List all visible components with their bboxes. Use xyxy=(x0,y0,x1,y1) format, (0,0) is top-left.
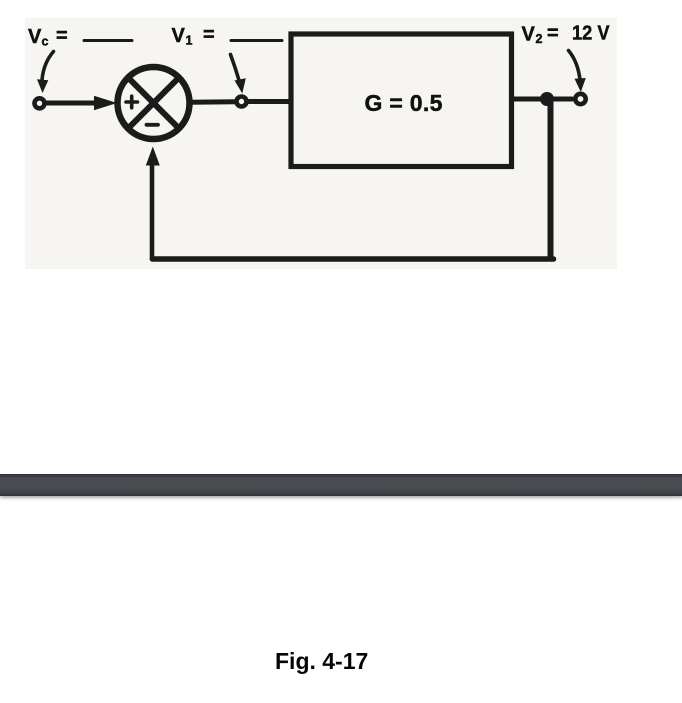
svg-text:V: V xyxy=(28,26,42,48)
svg-text:c: c xyxy=(42,35,49,49)
svg-text:2: 2 xyxy=(536,32,543,46)
svg-text:12 V: 12 V xyxy=(572,23,610,45)
svg-text:1: 1 xyxy=(186,34,193,48)
svg-text:V: V xyxy=(172,25,186,47)
svg-text:=: = xyxy=(547,23,559,45)
svg-text:G = 0.5: G = 0.5 xyxy=(365,90,443,116)
svg-text:=: = xyxy=(56,25,68,47)
svg-text:V: V xyxy=(522,24,536,46)
svg-text:=: = xyxy=(203,24,215,46)
